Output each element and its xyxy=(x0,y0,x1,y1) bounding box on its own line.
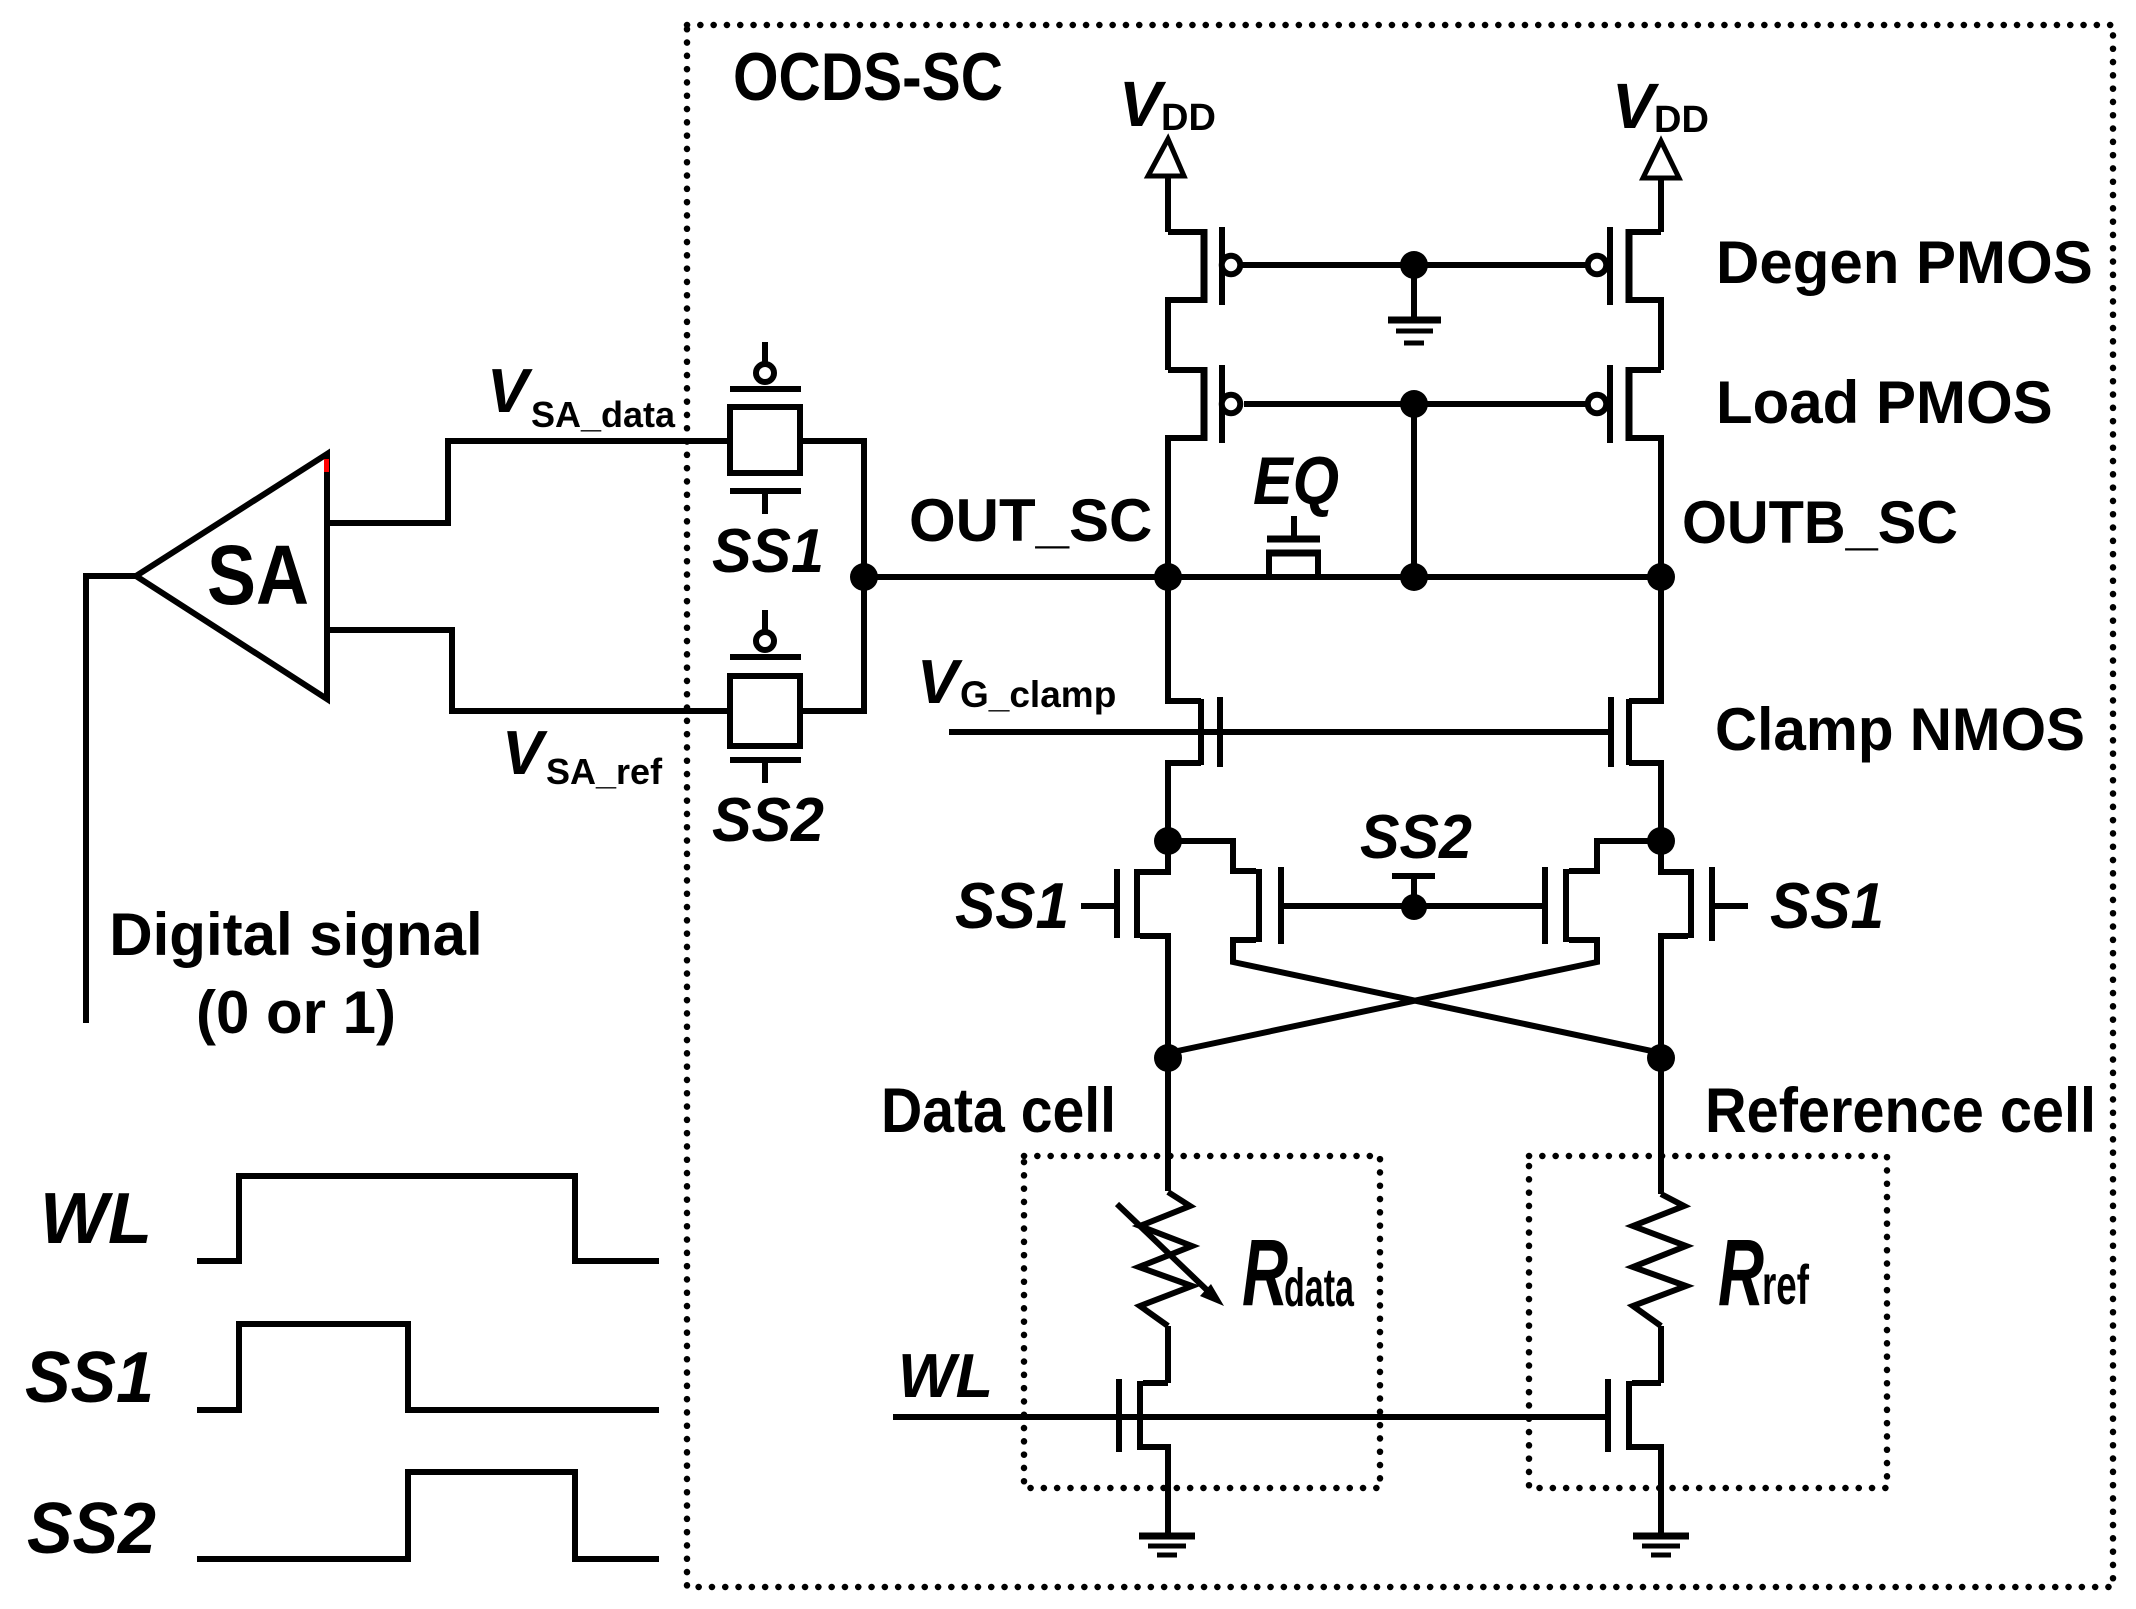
Data cell dotted box xyxy=(1024,1156,1380,1488)
wire switch SS1 to junction xyxy=(800,441,864,577)
node V_SA_data xyxy=(487,357,676,435)
svg-text:V: V xyxy=(917,648,963,717)
svg-text:SS2: SS2 xyxy=(1360,803,1472,872)
svg-text:SS1: SS1 xyxy=(1770,869,1884,942)
ground small at Degen gates xyxy=(1388,265,1441,343)
transistor mid NMOS left (SS2 pair) xyxy=(1233,867,1661,1053)
power VDD left xyxy=(1119,68,1216,232)
svg-text:V: V xyxy=(502,719,548,788)
resistor R_ref xyxy=(1633,1058,1809,1383)
svg-text:SS2: SS2 xyxy=(712,786,824,855)
svg-text:Data cell: Data cell xyxy=(881,1076,1116,1146)
Reference cell dotted box xyxy=(1529,1156,1887,1488)
svg-text:R: R xyxy=(1718,1220,1764,1326)
svg-text:(0 or 1): (0 or 1) xyxy=(196,979,396,1046)
svg-text:R: R xyxy=(1242,1220,1288,1326)
transistor WL NMOS left xyxy=(1119,1379,1168,1534)
wire SA output to Digital signal xyxy=(86,576,138,1023)
switch SS2 xyxy=(712,610,824,855)
transistor Degen PMOS left xyxy=(1168,227,1240,370)
OCDS-SC dotted border box xyxy=(687,25,2113,1587)
transistor Clamp NMOS right xyxy=(1611,577,1661,841)
ground reference cell xyxy=(1633,1536,1689,1555)
wire V_SA_data : SA plus input to switch SS1 xyxy=(327,441,730,523)
wire V_SA_ref : SA minus input to switch SS2 xyxy=(327,630,730,711)
transistor Clamp NMOS left xyxy=(1168,577,1220,841)
node left sense junction xyxy=(1154,827,1182,855)
transistor SS1 NMOS left xyxy=(1081,841,1168,1058)
svg-text:WL: WL xyxy=(898,1342,993,1411)
transistor Degen PMOS right xyxy=(1588,227,1661,370)
svg-text:SA_data: SA_data xyxy=(531,394,676,435)
ground data cell xyxy=(1139,1536,1195,1555)
svg-text:V: V xyxy=(1119,68,1167,140)
svg-text:SS1: SS1 xyxy=(712,517,824,586)
svg-text:Reference cell: Reference cell xyxy=(1705,1076,2096,1146)
power VDD right xyxy=(1612,70,1709,232)
wire WL gate line xyxy=(893,1414,1608,1420)
waveform SS2 xyxy=(197,1472,659,1559)
svg-text:OCDS-SC: OCDS-SC xyxy=(733,39,1003,115)
wire Degen PMOS gates xyxy=(1242,262,1589,268)
resistor R_data xyxy=(1117,1058,1355,1383)
waveform WL xyxy=(197,1176,659,1261)
node junction SS switches xyxy=(850,563,878,591)
transistor EQ xyxy=(1253,443,1339,578)
wire V_G_clamp gate line xyxy=(949,729,1614,735)
wire left node to mid NMOS xyxy=(1168,841,1256,871)
wire Load gate to OUT_SC xyxy=(1411,404,1417,577)
transistor Load PMOS left xyxy=(1168,365,1240,577)
node right sense junction xyxy=(1647,827,1675,855)
svg-text:DD: DD xyxy=(1161,97,1216,139)
switch SS1 xyxy=(712,342,824,586)
svg-text:OUTB_SC: OUTB_SC xyxy=(1682,489,1958,556)
svg-text:V: V xyxy=(487,357,533,426)
svg-text:SA: SA xyxy=(207,528,309,622)
transistor WL NMOS right xyxy=(1608,1379,1661,1534)
wire switch SS2 to junction xyxy=(800,577,864,711)
svg-text:DD: DD xyxy=(1654,99,1709,141)
svg-text:Degen PMOS: Degen PMOS xyxy=(1716,229,2093,296)
svg-text:ref: ref xyxy=(1762,1253,1809,1316)
node V_SA_ref xyxy=(502,719,663,792)
transistor Load PMOS right xyxy=(1588,365,1661,577)
svg-text:SS1: SS1 xyxy=(955,869,1069,942)
svg-text:EQ: EQ xyxy=(1253,443,1339,519)
svg-text:SA_ref: SA_ref xyxy=(546,751,663,792)
svg-text:OUT_SC: OUT_SC xyxy=(909,487,1152,554)
svg-text:Digital signal: Digital signal xyxy=(109,901,482,968)
transistor mid NMOS right (SS2 pair) xyxy=(1168,841,1661,1053)
wire OUT_SC bus xyxy=(864,574,1661,580)
svg-text:WL: WL xyxy=(40,1179,152,1259)
wire Load PMOS gates xyxy=(1244,401,1588,407)
svg-text:SS2: SS2 xyxy=(27,1489,156,1569)
svg-text:G_clamp: G_clamp xyxy=(960,674,1116,715)
svg-text:V: V xyxy=(1612,70,1660,142)
node EQ right junction xyxy=(1400,563,1428,591)
waveform SS1 xyxy=(197,1324,659,1410)
transistor SS1 NMOS right xyxy=(1661,841,1748,1058)
svg-text:SS1: SS1 xyxy=(25,1338,154,1418)
node OUT_SC junction left xyxy=(1154,563,1182,591)
node Degen gate xyxy=(1400,251,1428,279)
node OUTB_SC junction xyxy=(1647,563,1675,591)
node data branch xyxy=(1154,1044,1182,1072)
svg-text:Clamp NMOS: Clamp NMOS xyxy=(1715,696,2085,763)
node V_G_clamp xyxy=(917,648,1116,717)
svg-text:data: data xyxy=(1284,1258,1355,1318)
wire SS2 gate line xyxy=(1284,903,1544,909)
node reference branch xyxy=(1647,1044,1675,1072)
op-amp SA xyxy=(136,454,329,699)
svg-text:Load PMOS: Load PMOS xyxy=(1716,369,2053,436)
node Load gate xyxy=(1400,390,1428,418)
node SS2 gate tap xyxy=(1392,876,1435,920)
